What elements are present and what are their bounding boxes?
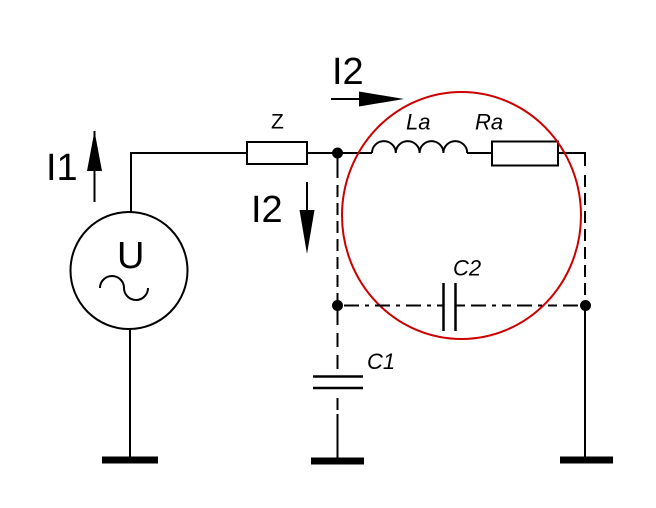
resistor Z [247, 142, 307, 164]
wire right dashed vertical [584, 175, 586, 301]
wire source to resistor Z [131, 153, 247, 212]
inductor La [372, 141, 467, 153]
ground (middle) [311, 458, 364, 465]
current arrow I2 (right) [331, 92, 404, 107]
wire node A to node B (dashed) [337, 185, 339, 301]
svg-text:I2: I2 [332, 51, 364, 93]
sine symbol [100, 276, 148, 300]
svg-text:U: U [117, 235, 144, 277]
wire node B to C2 (dash-dot) [344, 305, 443, 307]
wire node B to C1 (dashed) [337, 311, 339, 376]
svg-text:La: La [406, 110, 430, 135]
node C [580, 300, 591, 311]
red highlight ellipse [342, 92, 581, 339]
wire C2 to node C (dash-dot) [456, 305, 580, 307]
svg-text:Z: Z [271, 111, 284, 134]
svg-text:I2: I2 [251, 189, 283, 231]
ground (left) [102, 457, 158, 464]
current arrow I1 [87, 131, 102, 202]
current arrow I2 (down) [300, 182, 315, 254]
voltage source U [71, 212, 188, 329]
resistor Ra [492, 142, 558, 166]
capacitor C1 [313, 377, 363, 389]
wire node C to ground [584, 306, 586, 460]
wire source to ground [129, 329, 131, 459]
wire node A stub down [337, 153, 339, 178]
svg-text:C2: C2 [453, 256, 481, 281]
node A [332, 148, 343, 159]
svg-text:I1: I1 [46, 147, 78, 189]
wire C1 to ground (dash then solid) [337, 398, 339, 459]
capacitor C2 [444, 283, 456, 331]
svg-text:C1: C1 [367, 349, 395, 374]
node B [332, 300, 343, 311]
ground (right) [560, 457, 613, 464]
wire Z to node A [307, 152, 372, 154]
wire Ra to right corner [558, 153, 585, 166]
svg-text:Ra: Ra [475, 110, 503, 135]
wire La to Ra [467, 152, 492, 154]
